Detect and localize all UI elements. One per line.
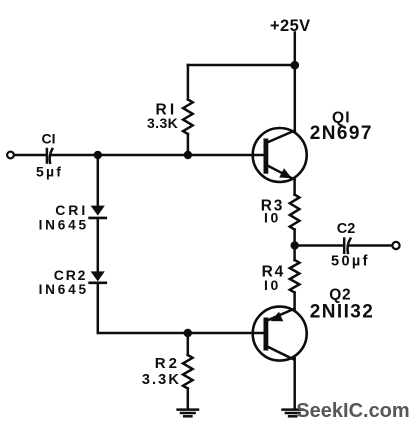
svg-text:2N697: 2N697 <box>310 123 373 144</box>
wire junction to C2 <box>295 244 343 247</box>
resistor R1 <box>183 65 193 155</box>
node junction C2 <box>291 241 299 249</box>
node junction R2 top <box>184 329 192 337</box>
wire R1 top to +25V line <box>188 64 295 67</box>
wire Q1 emitter to R3 <box>293 180 296 195</box>
wire C1 to Q1 base <box>52 154 264 157</box>
svg-text:3.3K: 3.3K <box>142 372 181 388</box>
wire Q2 collector to ground <box>293 358 296 408</box>
wire R3 to junction <box>293 230 296 246</box>
transistor Q2 <box>253 307 307 361</box>
capacitor C1 <box>47 149 52 163</box>
svg-text:CR2: CR2 <box>54 267 87 283</box>
capacitor C2 <box>344 239 350 253</box>
svg-text:3.3K: 3.3K <box>147 115 178 131</box>
wire junction to R4 <box>293 246 296 261</box>
svg-text:IN645: IN645 <box>39 282 89 297</box>
resistor R2 <box>183 333 193 409</box>
diode CR2 <box>90 271 106 282</box>
svg-text:5µf: 5µf <box>36 164 63 180</box>
svg-text:I0: I0 <box>264 277 281 293</box>
resistor R4 <box>290 260 300 293</box>
transistor Q1 <box>253 128 307 182</box>
svg-text:CI: CI <box>42 131 56 147</box>
output terminal <box>392 242 399 249</box>
wire CR2 down and right to Q2 base <box>98 284 264 333</box>
wire CR1 to CR2 <box>97 219 100 272</box>
svg-text:SeekIC.com: SeekIC.com <box>296 400 409 422</box>
node junction input/diodes <box>94 151 102 159</box>
svg-text:+25V: +25V <box>270 17 311 35</box>
wire junction down to CR1 <box>97 155 100 206</box>
svg-text:CRI: CRI <box>55 202 88 218</box>
wire R4 to Q2 emitter <box>293 293 296 310</box>
wire C2 to output terminal <box>350 244 393 247</box>
svg-text:IN645: IN645 <box>39 217 89 232</box>
wire +25V down to Q1 collector <box>294 33 297 131</box>
node junction top <box>291 61 300 70</box>
svg-text:R2: R2 <box>155 355 180 372</box>
svg-text:C2: C2 <box>337 221 356 237</box>
svg-text:I0: I0 <box>264 210 281 226</box>
node junction R1 bottom <box>184 151 192 159</box>
svg-text:2NII32: 2NII32 <box>310 301 374 322</box>
ground (Q2) <box>283 410 303 417</box>
ground (R2) <box>178 410 198 417</box>
svg-text:50µf: 50µf <box>331 253 370 269</box>
resistor R3 <box>290 195 300 230</box>
diode CR1 <box>90 206 106 218</box>
input terminal <box>7 152 14 159</box>
wire input to C1 <box>14 154 45 157</box>
